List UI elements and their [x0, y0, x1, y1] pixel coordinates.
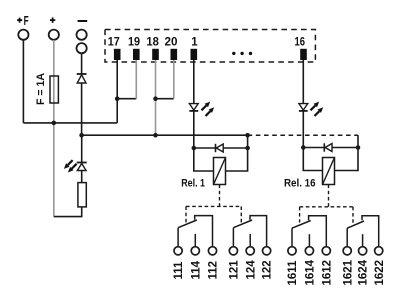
terminal + [49, 17, 59, 39]
svg-text:20: 20 [165, 37, 178, 49]
LED 16 (cathode down) [299, 104, 308, 111]
svg-text:124: 124 [245, 260, 257, 280]
wire joining pins 18 and 20 [156, 98, 174, 100]
contact 1611/1614/1612 [292, 216, 326, 247]
wire relay 16 right lead [335, 148, 359, 171]
label 1611 [287, 260, 299, 286]
junction minus wire to rail [79, 133, 84, 138]
relay 1 diode line [194, 147, 248, 149]
label 1622 [374, 260, 386, 286]
wire pin 17 down [116, 60, 118, 99]
terminal circles 111 114 112 [174, 247, 217, 255]
minus rail (solid part) [82, 134, 248, 136]
junction pin 18 wire to minus rail [153, 133, 158, 138]
wire resistor to + line [54, 207, 82, 217]
wire 17/19 junction down to +F rail [116, 99, 118, 123]
wire LED 16 down to coil line [302, 111, 304, 148]
+F rail [23, 122, 117, 124]
svg-text:19: 19 [128, 37, 140, 49]
svg-text:114: 114 [190, 260, 202, 279]
svg-text:F = 1A: F = 1A [35, 73, 47, 105]
terminal circles 1621 1624 1622 [343, 247, 383, 255]
diode D1 (series protection, cathode up) [77, 74, 87, 83]
wire relay 16 left lead [303, 148, 322, 171]
LED 16 arrows [311, 102, 324, 116]
wire pin 20 down (gray) [173, 60, 175, 99]
mechanical link relay 1 [186, 185, 241, 223]
terminal +F [17, 14, 29, 40]
wire rail down to relay 1 diode line [247, 135, 249, 148]
relay coil K16 [323, 158, 335, 185]
svg-text:Rel. 1: Rel. 1 [181, 177, 205, 189]
label Rel. 16 [284, 177, 316, 189]
node relay 16 right [356, 145, 361, 150]
mechanical link relay 16 [300, 185, 353, 224]
label 124 [245, 260, 257, 280]
junction pins 17/19 [115, 96, 120, 101]
pin 18 [146, 37, 159, 61]
label 122 [262, 260, 274, 279]
label Rel. 1 [181, 177, 205, 189]
svg-text:17: 17 [108, 37, 120, 49]
svg-text:16: 16 [294, 37, 305, 49]
wire pin 1 down to LED [193, 60, 195, 103]
wire dashed rail down to relay 16 diode line [357, 135, 359, 147]
svg-text:1612: 1612 [321, 260, 333, 286]
wire LED 1 down to coil line [193, 111, 195, 148]
label 111 [173, 261, 185, 280]
svg-text:1611: 1611 [287, 260, 299, 286]
wire LED to resistor [81, 171, 83, 183]
label 112 [208, 261, 220, 280]
junction minus rail to relay 1 branch [245, 133, 250, 138]
svg-text:112: 112 [208, 261, 220, 280]
pin 19 [128, 37, 140, 61]
node relay 1 left [192, 146, 197, 151]
wire +F terminal down to +F rail [22, 40, 24, 123]
wire + terminal down through fuse to bottom corner (gray) [53, 40, 55, 217]
freewheel diode V16 (cathode left) [324, 143, 332, 151]
resistor R1 [78, 183, 86, 207]
LED 1 (cathode down) [189, 104, 198, 111]
svg-text:121: 121 [229, 260, 241, 280]
junction fuse output to +F rail [52, 121, 57, 126]
svg-text:18: 18 [146, 37, 159, 49]
LED power indicator [77, 163, 87, 171]
svg-text:1621: 1621 [342, 259, 354, 285]
label 1624 [358, 259, 370, 285]
ellipsis dots [232, 52, 252, 55]
svg-text:1: 1 [191, 37, 198, 49]
terminal circles 1611 1614 1612 [288, 247, 331, 255]
label 121 [229, 260, 241, 280]
pin 1 [191, 37, 199, 61]
svg-text:Rel. 16: Rel. 16 [284, 177, 316, 189]
value label F = 1A [35, 73, 47, 105]
svg-text:1622: 1622 [374, 260, 386, 286]
wire pin 19 down (gray) [135, 60, 137, 99]
pin 20 [165, 37, 178, 61]
LED power arrows [64, 160, 77, 172]
wire relay 1 left lead [194, 148, 214, 171]
wire diode down to minus rail [81, 83, 83, 135]
pin 16 [294, 37, 306, 61]
svg-text:111: 111 [173, 261, 185, 280]
terminal circles 121 124 122 [229, 247, 270, 255]
wire relay 1 right lead [226, 148, 248, 171]
contact 121/124/122 [233, 216, 266, 247]
label 1621 [342, 259, 354, 285]
wire pin 16 down to LED [302, 60, 304, 103]
wire minus rail down to LED [81, 135, 83, 162]
LED 1 arrows [202, 102, 215, 116]
contact 1621/1624/1622 [347, 216, 379, 247]
svg-text:1614: 1614 [305, 259, 317, 285]
label 1612 [321, 260, 333, 286]
svg-text:1624: 1624 [358, 259, 370, 285]
svg-text:122: 122 [262, 260, 274, 279]
pin 17 [108, 37, 121, 61]
node relay 1 right [245, 146, 250, 151]
relay 16 diode line [303, 147, 358, 149]
terminal - [77, 21, 88, 53]
fuse F1 [50, 76, 58, 103]
junction pins 18/20 [153, 96, 158, 101]
wire joining pins 17 and 19 [117, 98, 136, 100]
minus rail (dashed continuation) [248, 134, 358, 136]
label 1614 [305, 259, 317, 285]
relay coil K1 [214, 158, 226, 185]
contact 111/114/112 [178, 216, 212, 247]
freewheel diode V1 (cathode left) [216, 144, 224, 152]
node relay 16 left [301, 145, 306, 150]
label 114 [190, 260, 202, 279]
wire pin 18 down to minus rail (gray) [155, 60, 157, 135]
svg-text:F: F [24, 14, 29, 28]
connector dashed box [105, 30, 315, 63]
wire - terminal down to diode [81, 53, 83, 74]
